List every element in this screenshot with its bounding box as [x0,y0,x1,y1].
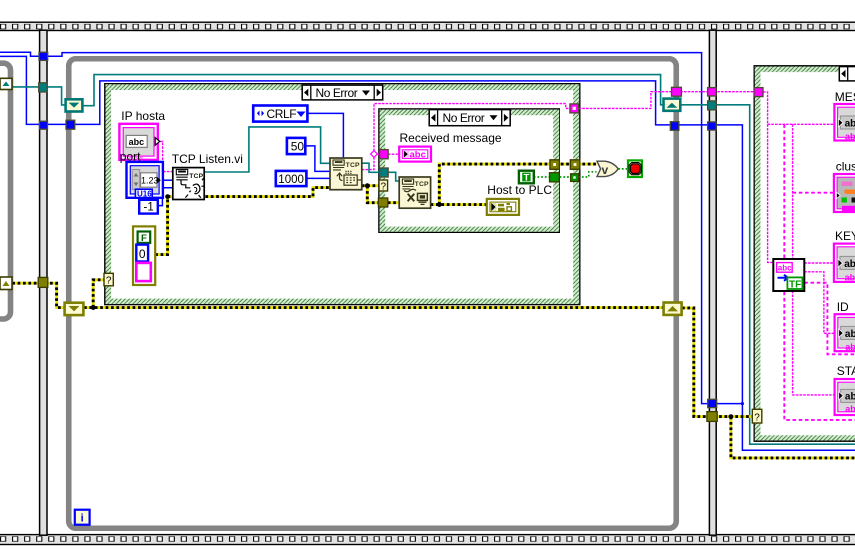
indicator: Host to PLC error cluster [487,199,519,215]
node: Or gate [597,161,618,177]
svg-text:50: 50 [291,139,305,153]
svg-text:TCP: TCP [415,181,429,188]
wire: blue 50 constant to TCP Read bytes input [305,146,330,172]
wire: blue CRLF constant to TCP Read mode input [307,113,343,158]
tunnel: teal up-arrow on left frame loop border [0,78,12,89]
wire: teal connection from left frame tunnel into left shift register [12,87,66,105]
wire: boolean T constant to Or gate (dotted green) [534,172,597,177]
svg-text:ab: ab [845,272,855,282]
constant: -1 [139,200,158,214]
wire: teal TCP Listen connection out to TCP Read [204,127,330,172]
node: TCP Listen.vi icon U1 [173,168,204,200]
tunnel: blue on right divider (lower) [708,399,717,407]
node: Match Pattern (abc->TF) in frame 3 [773,259,804,291]
wire: pink string junction up and across to outer case tunnel [374,104,570,152]
svg-text:ab: ab [845,342,855,352]
while loop W1 (middle frame) [69,59,677,529]
svg-text:?: ? [106,276,112,287]
svg-text:ab: ab [845,392,855,403]
wire: pink match node out to KEY indicator [804,262,836,264]
wire: pink string TCP Read data out up to junction [362,157,374,170]
selector terminal "?" of inner case [379,180,388,192]
svg-text:U16: U16 [137,189,152,198]
control: IP hosta string control [119,124,159,160]
tunnel: magenta on while loop right border [672,87,682,96]
svg-text:TCP: TCP [189,173,203,180]
terminal: loop stop condition (red stop sign) [628,160,642,177]
svg-text:CRLF: CRLF [267,107,297,121]
svg-text:abc: abc [778,264,792,273]
case structure C1 (outer "No Error") border [105,84,580,305]
indicator: Received message string [399,147,431,162]
tunnel: magenta on frame-3 case left border [754,88,763,97]
wire: pink string tunnel to frame 3 [579,92,754,109]
svg-text:TCP: TCP [346,162,360,169]
svg-text:ab: ab [845,119,855,130]
wire: blue numeric net B1 (top run across frames) [0,52,742,403]
wire: error TCP Read out to inner case selector and tunnel [362,186,379,203]
selector terminal "?" of frame-3 case [752,409,762,423]
svg-text:No Error: No Error [316,86,358,100]
svg-text:1.23: 1.23 [141,175,159,185]
svg-text:IP hosta: IP hosta [121,109,165,123]
svg-text:v: v [602,163,609,177]
wire: pink branch down to cluster and STATUS indicators [793,124,835,395]
junction: error wire at shift register output [91,305,96,310]
wire: blue 1000 constant to TCP Read timeout input [306,177,330,179]
svg-text:0: 0 [139,247,146,261]
wire: pink match node out to ID indicator [804,272,834,334]
wire: pink string IP hosta to TCP Listen [160,141,173,171]
wire: teal shift register pass-through across loop [83,75,663,106]
while loop of left frame (partially visible) [0,63,11,319]
node: TCP Close icon U3 [399,177,430,208]
tunnel: blue on right divider (upper) [708,122,717,130]
svg-text:abc: abc [410,150,426,161]
flat sequence structure: top film-strip border [0,22,855,30]
svg-text:ID: ID [837,300,849,314]
svg-text:?: ? [381,181,387,192]
flat sequence frame divider (left, between frame 1 and frame 2) [40,30,47,535]
junction: error wire branch in frame 2/3 gap [729,414,734,419]
selector terminal "?" of outer case [104,273,113,286]
shift register: teal up-arrow (right) [664,99,681,111]
indicator: KEY string (clipped) [834,244,855,283]
svg-text:MESS: MESS [835,90,855,104]
wire: error Y3 right shift register out to frame 3 [682,308,855,458]
control: port numeric control (U16) [127,162,163,199]
junction: blue wires join [741,402,744,405]
svg-text:ab: ab [845,132,855,142]
wire: error cluster Y1 from left frame to left shift register [12,283,64,307]
wire: teal tunnel to TCP Close connection in [388,172,399,181]
wire: blue port control to TCP Listen [163,179,173,181]
tunnel: teal on inner case left border [380,168,389,177]
svg-text:Host to PLC: Host to PLC [487,183,552,197]
junction: error at TCP Close output [437,202,442,207]
tunnel: blue on while loop right border [670,122,679,131]
tunnel: olive error on right divider [707,412,717,422]
node: TCP Read icon U2 [330,158,362,190]
terminal: loop iteration i [75,510,90,525]
wire: error cluster constant up to TCP Listen error in [155,188,330,255]
svg-text:clust: clust [836,159,855,173]
indicator: MESSAGE string (clipped) [834,104,855,142]
tunnel: olive error on outer case right border [570,160,580,170]
tunnel: teal on right divider [708,101,717,110]
shift register: olive error up-arrow (right) [664,303,682,315]
indicator: ID string (clipped) [835,314,855,352]
indicator: cluster (clipped) [834,174,855,212]
flat sequence frame divider (right, between frame 2 and frame 3) [709,30,716,535]
svg-text:-1: -1 [144,202,154,214]
wire: teal TCP Read connection out to inner case tunnel [362,163,380,172]
shift register: olive error down-arrow (left) [65,303,84,315]
tunnel: magenta on inner case left border [380,150,389,159]
junction: error at TCP Read output [365,183,370,188]
tunnel: blue on left divider (top) [39,52,48,60]
junction: pink string diamond [371,151,378,158]
case selector label of frame-3 case (partial) [839,67,855,81]
constant: CRLF enum [253,106,307,122]
tunnel: olive error on inner case right border [550,160,560,170]
svg-text:F: F [141,233,147,244]
tunnel: blue on left divider (second) [40,121,48,129]
wire: boolean gate tip to stop terminal [618,168,628,170]
tunnel: olive up-arrow on left frame loop border [0,277,12,290]
svg-text:?: ? [754,412,760,423]
case selector label of inner case: No Error [429,110,510,126]
wire: pink cluster branch down to bottom-right [784,124,855,420]
tunnel: olive error on left divider [38,277,48,287]
svg-text:T: T [523,173,529,184]
svg-text:ab: ab [845,329,855,340]
wire: error tunnel to TCP Close error in [388,201,399,204]
svg-text:No Error: No Error [443,111,485,125]
tunnel: magenta on right divider [708,88,717,96]
tunnel: olive on inner case left border [378,198,387,207]
svg-text:i: i [81,513,84,525]
constant: 50 [287,138,305,154]
case structure C3 (right frame, partially visible) border [754,66,855,441]
svg-text:ab: ab [844,259,855,270]
svg-text:abc: abc [129,137,145,147]
tunnel: green boolean on outer case right border [571,174,579,182]
svg-text:Received message: Received message [400,131,502,145]
tunnel: blue on while loop left border [66,120,75,129]
svg-text:KEY: KEY [835,229,855,243]
wire: blue -1 constant to TCP Listen timeout [158,188,173,206]
svg-text:STA: STA [837,364,855,378]
tunnel: magenta on outer case right border [570,104,579,113]
junction: error wire at cluster/listen [165,194,170,199]
wire: blue numeric net B2 (lower-left run to bottom right) [0,56,855,450]
wire: error branch up to outer case selector [93,280,104,308]
shift register: teal down-arrow (left) [66,99,83,111]
constant: T boolean true [519,171,534,184]
svg-text:TF: TF [789,279,801,290]
case selector label of outer case: No Error [302,85,383,100]
wire: teal from right shift register to frame 3 [681,105,855,444]
wire: error cluster Y2 shift register to shift register across loop bottom [84,306,663,309]
wire: pink cluster branch to cluster indicator [793,192,834,194]
constant: error cluster (F,0,empty string) [133,226,155,285]
wire: pink branch to MESSAGE indicator [768,123,835,125]
wire: pink string junction to Received message indicator [377,153,399,155]
case structure C2 (inner "No Error") border [379,109,559,232]
indicator: STATUS string (clipped) [835,379,855,415]
svg-text:ab: ab [845,404,855,414]
flat sequence structure: bottom film-strip border [0,535,855,545]
tunnel: green boolean on inner case right border [550,173,560,182]
wire: pink match node offset out to right edge [804,283,855,355]
wire: error TCP Close out to Host to PLC and Or gate [431,164,597,205]
constant: 1000 [276,171,307,186]
tunnel: teal on left divider [39,83,48,92]
wire: pink string tree in frame 3: main vertical to match node [763,92,773,263]
svg-text:TCP Listen.vi: TCP Listen.vi [172,152,243,166]
svg-text:1000: 1000 [278,174,304,186]
